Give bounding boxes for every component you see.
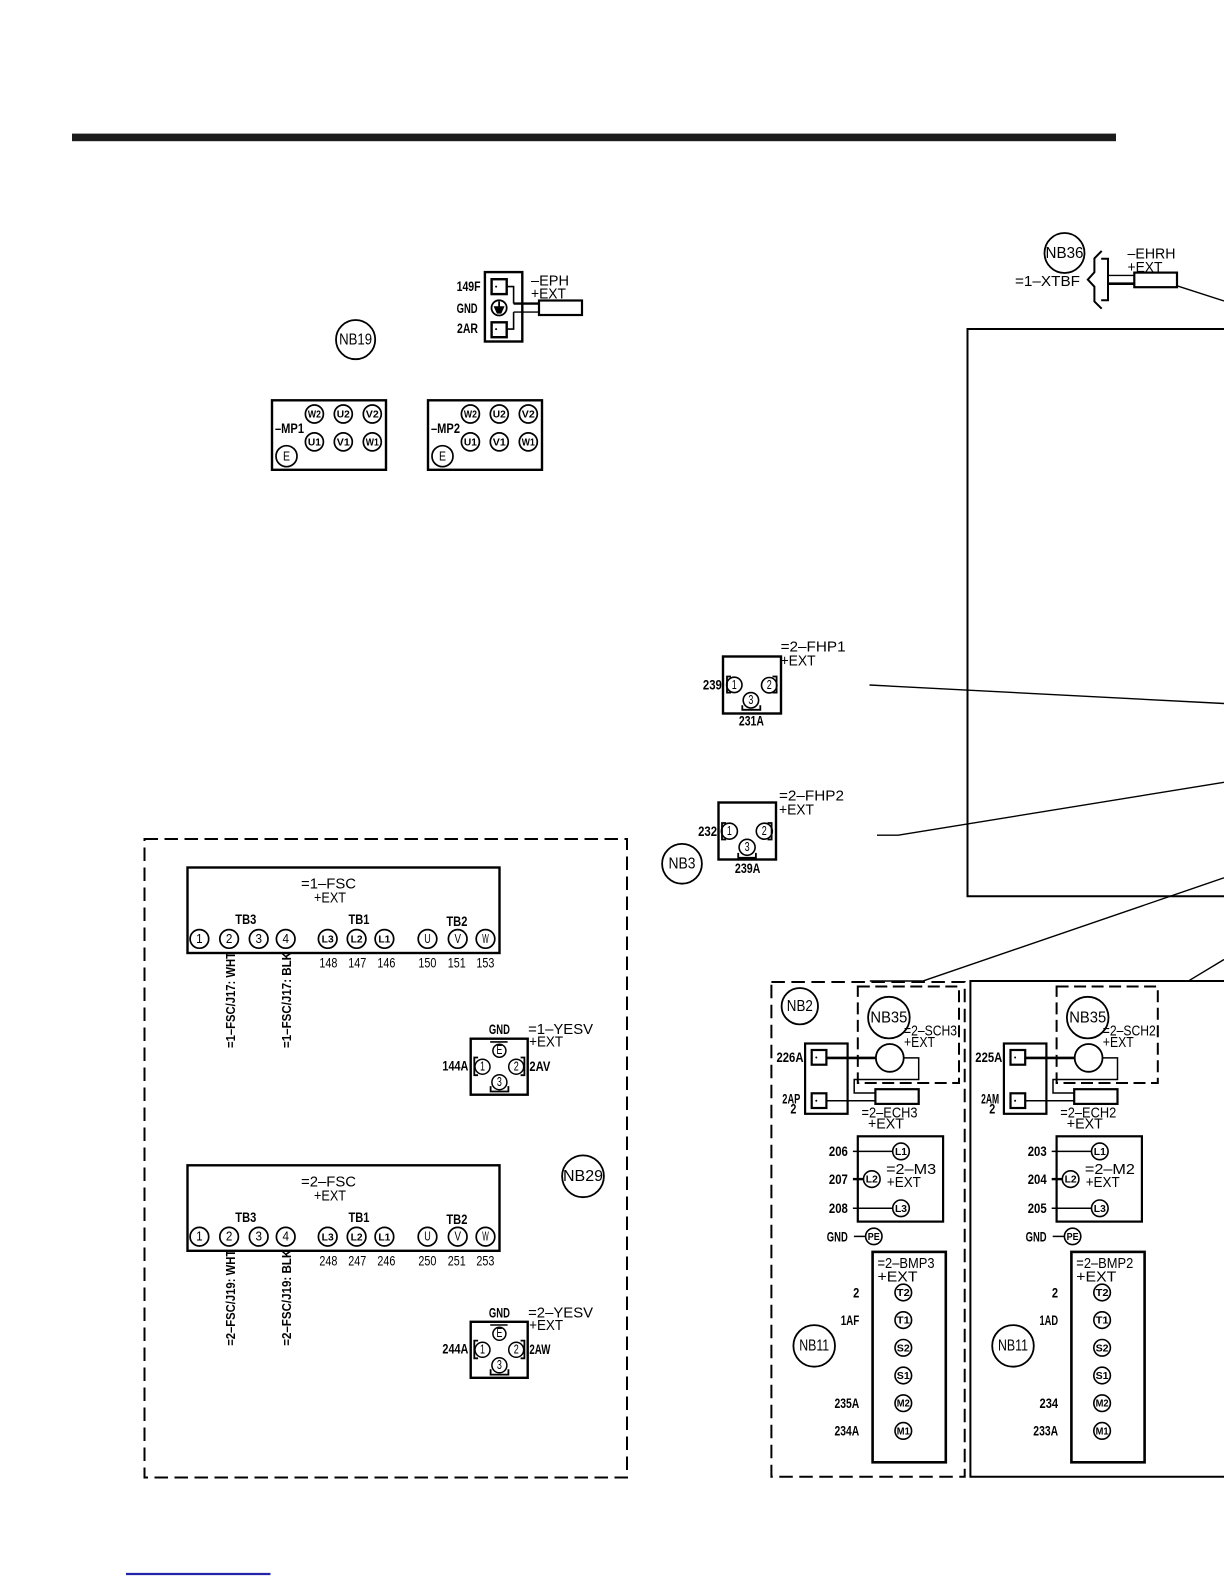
svg-text:PE: PE — [868, 1232, 880, 1243]
svg-text:208: 208 — [829, 1201, 848, 1216]
svg-text:+EXT: +EXT — [314, 890, 346, 907]
pin M1 of =2-BMP2 — [1094, 1423, 1111, 1440]
svg-text:TB3: TB3 — [235, 1210, 256, 1225]
pin 2 — [509, 1059, 524, 1074]
svg-text:1: 1 — [196, 1230, 203, 1244]
svg-text:=2–FSC/J19: WHT: =2–FSC/J19: WHT — [224, 1249, 238, 1345]
wire — [877, 782, 1224, 835]
connector -EPH outer — [485, 272, 522, 341]
coil =2-SCH2 — [1075, 1044, 1103, 1072]
svg-text:225A: 225A — [975, 1050, 1002, 1065]
pin 1 — [475, 1059, 490, 1074]
svg-text:L2: L2 — [351, 935, 363, 946]
svg-text:E: E — [439, 449, 446, 463]
svg-text:L3: L3 — [322, 1232, 334, 1243]
svg-text:+EXT: +EXT — [868, 1116, 904, 1133]
svg-text:=1–FSC/J17: WHT: =1–FSC/J17: WHT — [224, 952, 238, 1048]
svg-text:V1: V1 — [493, 437, 506, 448]
terminal 3 of =1-FSC — [249, 930, 268, 949]
svg-text:=1–XTBF: =1–XTBF — [1015, 273, 1080, 290]
svg-text:246: 246 — [377, 1252, 395, 1268]
terminal V2 of MP2 — [519, 405, 537, 423]
svg-text:E: E — [496, 1043, 502, 1057]
brace =1-XTBF — [1088, 251, 1102, 309]
heater -EPH — [539, 301, 582, 316]
heater -EHRH — [1134, 273, 1177, 288]
svg-text:2: 2 — [762, 824, 767, 838]
svg-text:+EXT: +EXT — [878, 1269, 918, 1286]
svg-text:E: E — [496, 1326, 502, 1340]
svg-text:T1: T1 — [897, 1316, 910, 1327]
svg-text:+EXT: +EXT — [1067, 1116, 1103, 1133]
svg-text:239: 239 — [703, 678, 722, 693]
svg-text:4: 4 — [282, 932, 289, 946]
coil =2-SCH3 — [876, 1044, 904, 1072]
pin E — [493, 1327, 506, 1340]
svg-text:234A: 234A — [835, 1424, 860, 1439]
svg-text:U1: U1 — [464, 437, 477, 448]
wire — [514, 302, 539, 304]
svg-text:150: 150 — [418, 955, 436, 971]
wire — [1177, 286, 1224, 301]
svg-text:TB1: TB1 — [349, 1210, 370, 1225]
svg-text:V1: V1 — [337, 437, 350, 448]
terminal U2 of MP2 — [490, 405, 508, 423]
pin 2AR — [492, 322, 507, 337]
svg-text:L2: L2 — [866, 1175, 878, 1186]
terminal U2 of MP1 — [334, 405, 352, 423]
terminal U1 of MP1 — [305, 433, 323, 451]
svg-text:T2: T2 — [897, 1288, 910, 1299]
wire — [826, 1057, 876, 1060]
ground bar — [490, 1324, 507, 1326]
wire — [854, 1235, 866, 1237]
svg-text:U: U — [424, 1230, 431, 1244]
svg-text:206: 206 — [829, 1144, 848, 1159]
svg-text:NB2: NB2 — [787, 998, 813, 1015]
svg-text:W: W — [482, 932, 489, 946]
footer rule — [126, 1573, 271, 1575]
svg-text:+EXT: +EXT — [887, 1174, 921, 1191]
terminal 2 of =2-FSC — [220, 1227, 239, 1246]
pin 3 of FHP1 — [743, 693, 758, 708]
svg-text:1AD: 1AD — [1040, 1313, 1059, 1328]
pump connector =2-BMP3 — [873, 1252, 946, 1462]
pin 2 of FHP2 — [756, 823, 772, 839]
terminal W1 of MP2 — [519, 433, 537, 451]
terminal L3 of =1-FSC — [318, 930, 337, 949]
pin L2 of =2-M2 — [1062, 1171, 1079, 1188]
svg-text:L2: L2 — [351, 1232, 363, 1243]
enclosure +EXT dashed — [145, 839, 628, 1478]
pin 2 of FHP1 — [762, 678, 777, 693]
svg-text:2: 2 — [790, 1102, 796, 1117]
svg-text:GND: GND — [457, 301, 478, 316]
pin L3 of =2-M2 — [1092, 1200, 1109, 1217]
node NB11 — [992, 1325, 1034, 1367]
svg-text:147: 147 — [348, 955, 366, 971]
pin 149F — [492, 279, 507, 294]
pin L3 of =2-M3 — [893, 1200, 910, 1217]
pin E — [493, 1044, 506, 1057]
svg-text:205: 205 — [1028, 1201, 1047, 1216]
svg-text:151: 151 — [448, 955, 466, 971]
svg-text:NB35: NB35 — [870, 1009, 907, 1026]
svg-text:L2: L2 — [1065, 1175, 1077, 1186]
terminal 4 of =2-FSC — [276, 1227, 295, 1246]
svg-text:=2–FSC/J19: BLK: =2–FSC/J19: BLK — [280, 1250, 294, 1346]
wire — [1053, 1058, 1118, 1093]
svg-text:149F: 149F — [457, 279, 481, 294]
svg-text:3: 3 — [255, 1230, 262, 1244]
svg-text:231A: 231A — [739, 714, 764, 729]
terminal U1 of MP2 — [461, 433, 479, 451]
terminal V1 of MP1 — [334, 433, 352, 451]
terminal L1 of =2-FSC — [375, 1227, 394, 1246]
svg-text:NB19: NB19 — [339, 332, 372, 349]
terminal L2 of =2-FSC — [347, 1227, 366, 1246]
terminal V2 of MP1 — [363, 405, 381, 423]
pin 1 of FHP1 — [727, 677, 742, 692]
svg-text:+EXT: +EXT — [781, 653, 816, 670]
svg-text:3: 3 — [745, 840, 750, 854]
terminal V of =2-FSC — [448, 1227, 467, 1246]
svg-text:2: 2 — [853, 1285, 859, 1300]
svg-text:W2: W2 — [308, 409, 321, 420]
svg-text:L1: L1 — [1094, 1147, 1106, 1158]
motor terminal plate -MP1 — [272, 400, 386, 470]
svg-text:144A: 144A — [442, 1059, 468, 1074]
connector =2-FHP1 — [723, 657, 781, 714]
terminal 2 of =1-FSC — [220, 930, 239, 949]
pin M2 of =2-BMP2 — [1094, 1395, 1111, 1412]
svg-text:3: 3 — [748, 693, 753, 707]
svg-text:S2: S2 — [897, 1343, 910, 1354]
svg-text:+EXT: +EXT — [314, 1187, 346, 1204]
svg-text:TB1: TB1 — [349, 912, 370, 927]
pin 1 — [475, 1342, 490, 1357]
svg-text:W1: W1 — [522, 437, 535, 448]
pin 225A — [1011, 1050, 1026, 1065]
svg-text:NB11: NB11 — [799, 1338, 829, 1355]
svg-text:GND: GND — [489, 1305, 510, 1320]
terminal U of =2-FSC — [418, 1227, 437, 1246]
svg-text:M2: M2 — [1096, 1399, 1109, 1410]
svg-text:L3: L3 — [322, 935, 334, 946]
svg-text:L3: L3 — [1094, 1204, 1106, 1215]
svg-text:3: 3 — [497, 1358, 502, 1372]
wire — [870, 685, 1224, 704]
svg-text:U: U — [424, 932, 431, 946]
connector =1-YESV — [471, 1039, 528, 1095]
svg-text:U1: U1 — [308, 437, 321, 448]
pin M2 of =2-BMP3 — [895, 1395, 912, 1412]
node NB35 — [868, 997, 910, 1039]
svg-text:2: 2 — [989, 1102, 995, 1117]
heater =2-ECH2 — [1074, 1089, 1117, 1104]
svg-text:NB36: NB36 — [1046, 245, 1084, 262]
pin L2 of =2-M3 — [864, 1171, 881, 1188]
pin T1 of =2-BMP2 — [1094, 1312, 1111, 1329]
svg-text:244A: 244A — [442, 1342, 468, 1357]
svg-text:W2: W2 — [464, 409, 477, 420]
svg-text:GND: GND — [1026, 1230, 1047, 1245]
terminal L1 of =1-FSC — [375, 930, 394, 949]
pin L1 of =2-M3 — [893, 1143, 910, 1160]
connector 225A — [1004, 1044, 1047, 1114]
svg-text:2AV: 2AV — [529, 1059, 550, 1074]
svg-text:L1: L1 — [378, 935, 390, 946]
svg-text:204: 204 — [1028, 1172, 1047, 1187]
wire — [1025, 1057, 1075, 1060]
wire — [1053, 1235, 1065, 1237]
svg-text:2AW: 2AW — [529, 1342, 550, 1357]
pin 2AM — [1011, 1093, 1026, 1108]
svg-text:1AF: 1AF — [841, 1313, 860, 1328]
enclosure NB2 dashed — [771, 982, 964, 1477]
svg-text:V2: V2 — [366, 409, 379, 420]
pin S1 of =2-BMP2 — [1094, 1367, 1111, 1384]
svg-text:233A: 233A — [1033, 1424, 1058, 1439]
wire — [826, 1100, 875, 1102]
motor =2-M3 — [858, 1136, 943, 1221]
pin 3 of FHP2 — [739, 839, 755, 855]
svg-text:2AR: 2AR — [457, 321, 478, 336]
svg-text:E: E — [283, 449, 290, 463]
svg-text:247: 247 — [348, 1252, 366, 1268]
heater =2-ECH3 — [875, 1089, 918, 1104]
svg-text:1: 1 — [727, 824, 732, 838]
svg-text:234: 234 — [1040, 1396, 1059, 1411]
terminal 3 of =2-FSC — [249, 1227, 268, 1246]
wire — [922, 878, 1224, 981]
terminal 4 of =1-FSC — [276, 930, 295, 949]
pump connector =2-BMP2 — [1071, 1252, 1144, 1462]
svg-text:2: 2 — [1052, 1285, 1058, 1300]
svg-text:+EXT: +EXT — [529, 1317, 563, 1334]
svg-text:–MP2: –MP2 — [431, 421, 460, 436]
svg-text:4: 4 — [282, 1230, 289, 1244]
wire — [854, 1058, 919, 1093]
node NB35 — [1067, 997, 1109, 1039]
svg-text:2: 2 — [514, 1343, 519, 1357]
svg-text:TB2: TB2 — [446, 914, 467, 929]
terminal strip =2-FSC — [188, 1165, 500, 1251]
svg-text:PE: PE — [1067, 1232, 1079, 1243]
frame box — [968, 329, 1224, 896]
svg-text:NB11: NB11 — [998, 1338, 1028, 1355]
svg-text:W: W — [482, 1230, 489, 1244]
svg-text:=1–FSC/J17: BLK: =1–FSC/J17: BLK — [280, 952, 294, 1048]
svg-text:V2: V2 — [522, 409, 535, 420]
wire — [1189, 960, 1224, 981]
svg-text:253: 253 — [476, 1252, 494, 1268]
pin 2AP — [812, 1093, 827, 1108]
node NB36 — [1045, 233, 1085, 273]
svg-text:232: 232 — [698, 824, 717, 839]
border rule — [72, 134, 1116, 142]
svg-text:T1: T1 — [1096, 1316, 1109, 1327]
svg-text:GND: GND — [827, 1230, 848, 1245]
pin L1 of =2-M2 — [1092, 1143, 1109, 1160]
node NB3 — [662, 844, 702, 884]
node NB11 — [793, 1325, 835, 1367]
pin PE of =2-M3 — [866, 1228, 882, 1244]
svg-text:1: 1 — [480, 1060, 485, 1074]
svg-text:V: V — [454, 1230, 461, 1244]
node NB2 — [782, 988, 818, 1024]
pin S1 of =2-BMP3 — [895, 1367, 912, 1384]
svg-text:+EXT: +EXT — [1128, 259, 1163, 276]
svg-text:–MP1: –MP1 — [275, 421, 304, 436]
svg-text:S1: S1 — [897, 1371, 910, 1382]
node NB29 — [562, 1155, 604, 1197]
svg-text:251: 251 — [448, 1252, 466, 1268]
svg-text:2: 2 — [226, 932, 233, 946]
svg-text:235A: 235A — [835, 1396, 860, 1411]
terminal W2 of MP2 — [461, 405, 479, 423]
svg-text:S2: S2 — [1096, 1343, 1109, 1354]
connector =2-FHP2 — [719, 803, 777, 860]
connector 226A — [805, 1044, 848, 1114]
terminal 1 of =2-FSC — [190, 1227, 209, 1246]
svg-text:+EXT: +EXT — [1103, 1034, 1134, 1051]
svg-text:250: 250 — [418, 1252, 436, 1268]
bracket bar — [1101, 259, 1108, 301]
terminal strip =1-FSC — [188, 868, 500, 954]
svg-text:226A: 226A — [777, 1050, 804, 1065]
wire — [870, 980, 923, 982]
svg-text:+EXT: +EXT — [904, 1034, 935, 1051]
svg-text:NB29: NB29 — [563, 1168, 603, 1185]
terminal W1 of MP1 — [363, 433, 381, 451]
svg-text:T2: T2 — [1096, 1288, 1109, 1299]
svg-text:+EXT: +EXT — [1086, 1174, 1120, 1191]
wire — [507, 287, 514, 304]
pin T2 of =2-BMP3 — [895, 1284, 912, 1301]
terminal U of =1-FSC — [418, 930, 437, 949]
svg-text:TB3: TB3 — [235, 912, 256, 927]
svg-text:U2: U2 — [337, 409, 350, 420]
terminal L2 of =1-FSC — [347, 930, 366, 949]
connector =2-YESV — [471, 1322, 528, 1378]
pin 3 — [492, 1358, 507, 1373]
earth terminal — [492, 300, 507, 315]
svg-text:W1: W1 — [366, 437, 379, 448]
svg-text:S1: S1 — [1096, 1371, 1109, 1382]
enclosure =2-SCH3 dashed — [858, 987, 959, 1084]
terminal E of MP2 — [432, 446, 453, 467]
wire — [514, 311, 539, 313]
pin T2 of =2-BMP2 — [1094, 1284, 1111, 1301]
svg-text:248: 248 — [319, 1252, 337, 1268]
svg-text:M2: M2 — [897, 1399, 910, 1410]
node NB19 — [336, 320, 375, 359]
terminal W of =1-FSC — [476, 930, 495, 949]
svg-text:+EXT: +EXT — [1076, 1269, 1116, 1286]
pin S2 of =2-BMP2 — [1094, 1340, 1111, 1357]
svg-text:M1: M1 — [1096, 1426, 1109, 1437]
svg-text:+EXT: +EXT — [779, 802, 814, 819]
pin S2 of =2-BMP3 — [895, 1340, 912, 1357]
wire — [1108, 282, 1134, 285]
pin 226A — [812, 1050, 827, 1065]
svg-text:2: 2 — [226, 1230, 233, 1244]
terminal L3 of =2-FSC — [318, 1227, 337, 1246]
svg-text:3: 3 — [255, 932, 262, 946]
svg-text:207: 207 — [829, 1172, 848, 1187]
svg-text:148: 148 — [319, 955, 337, 971]
svg-text:V: V — [454, 932, 461, 946]
svg-text:L3: L3 — [895, 1204, 907, 1215]
svg-text:153: 153 — [476, 955, 494, 971]
terminal V of =1-FSC — [448, 930, 467, 949]
wire — [507, 312, 514, 329]
svg-text:+EXT: +EXT — [529, 1034, 563, 1051]
pin 3 — [492, 1075, 507, 1090]
ground bar — [490, 1041, 507, 1043]
svg-text:L1: L1 — [895, 1147, 907, 1158]
svg-text:2: 2 — [514, 1060, 519, 1074]
terminal V1 of MP2 — [490, 433, 508, 451]
enclosure =2-SCH2 dashed — [1057, 987, 1158, 1084]
svg-text:3: 3 — [497, 1075, 502, 1089]
motor =2-M2 — [1057, 1136, 1142, 1221]
svg-text:1: 1 — [480, 1343, 485, 1357]
enclosure frame — [970, 981, 1224, 1477]
pin PE of =2-M2 — [1064, 1228, 1080, 1244]
svg-text:146: 146 — [377, 955, 395, 971]
motor terminal plate -MP2 — [428, 400, 542, 470]
pin 2 — [509, 1342, 524, 1357]
svg-text:U2: U2 — [493, 409, 506, 420]
svg-text:NB3: NB3 — [669, 856, 696, 873]
svg-text:2: 2 — [767, 678, 772, 692]
wire — [1025, 1100, 1074, 1102]
svg-text:GND: GND — [489, 1022, 510, 1037]
terminal W of =2-FSC — [476, 1227, 495, 1246]
svg-text:NB35: NB35 — [1069, 1009, 1106, 1026]
terminal W2 of MP1 — [305, 405, 323, 423]
terminal 1 of =1-FSC — [190, 930, 209, 949]
svg-text:1: 1 — [732, 678, 737, 692]
svg-text:TB2: TB2 — [446, 1212, 467, 1227]
svg-text:L1: L1 — [378, 1232, 390, 1243]
svg-text:+EXT: +EXT — [531, 286, 566, 303]
pin 1 of FHP2 — [721, 823, 737, 839]
terminal E of MP1 — [276, 446, 297, 467]
svg-text:203: 203 — [1028, 1144, 1047, 1159]
svg-text:M1: M1 — [897, 1426, 910, 1437]
pin M1 of =2-BMP3 — [895, 1423, 912, 1440]
pin T1 of =2-BMP3 — [895, 1312, 912, 1329]
svg-text:239A: 239A — [735, 861, 761, 876]
wire — [1108, 274, 1134, 276]
svg-text:1: 1 — [196, 932, 203, 946]
